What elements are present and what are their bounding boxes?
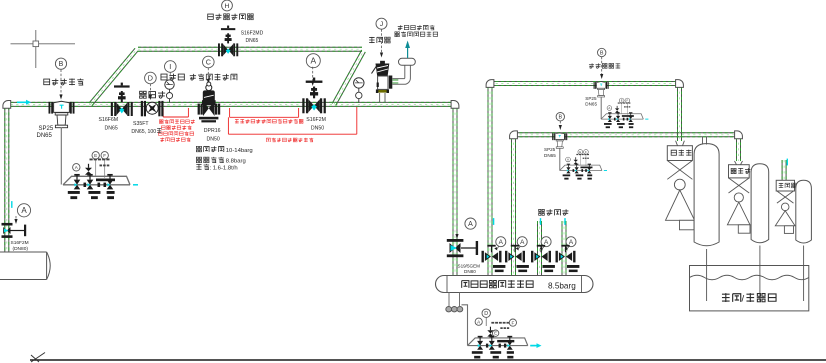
label stage 3 <box>779 183 797 188</box>
drain line separator 2 <box>600 97 602 119</box>
instrument bubble A (main globe valve) <box>306 54 320 68</box>
pressure gauge 2 <box>354 78 364 103</box>
header inlet valve 2 <box>505 245 529 272</box>
svg-text:A: A <box>468 221 473 228</box>
leader to valve 455 <box>456 229 458 235</box>
label stage 2 <box>731 168 751 174</box>
svg-text:H: H <box>225 3 230 10</box>
svg-text:: 8.8barg: : 8.8barg <box>223 159 246 165</box>
leader to strainer <box>149 84 151 96</box>
steam trap assembly 4 (bottom) <box>468 323 536 359</box>
svg-text:A: A <box>608 106 610 110</box>
steam trap assembly 1 (left) <box>63 152 138 200</box>
svg-text:S35FT: S35FT <box>133 121 149 127</box>
svg-text:SP25: SP25 <box>39 126 54 132</box>
header inlet valve 3 <box>531 245 555 272</box>
svg-text:S16F2M: S16F2M <box>306 117 326 123</box>
svg-text:: 1.6-1.8t/h: : 1.6-1.8t/h <box>210 166 238 172</box>
gate valve S16F6M <box>111 83 133 116</box>
flow arrow bottom trap <box>530 343 541 348</box>
leader to separator 1 <box>60 70 62 96</box>
svg-text:A: A <box>311 56 317 66</box>
svg-text:: 10-14barg: : 10-14barg <box>223 148 253 154</box>
svg-text:F: F <box>511 320 514 325</box>
svg-text:8.5barg: 8.5barg <box>548 281 576 290</box>
leader I to gauge <box>169 73 171 79</box>
wire bypass left diagonal <box>89 48 138 105</box>
svg-text:DN65: DN65 <box>246 38 259 44</box>
leader to safety valve <box>381 29 383 53</box>
valve on drop 455 <box>447 239 478 257</box>
svg-text:S16F2M: S16F2M <box>11 240 29 246</box>
pipe break tick stub 3 <box>540 218 542 225</box>
header inlet valve 1 <box>482 245 506 272</box>
instrument bubble F bottom trap <box>509 319 516 326</box>
leader header valve 4 <box>567 247 570 250</box>
instrument bubble A header 3 <box>541 237 551 247</box>
instrument bubble A bottom trap <box>475 318 482 325</box>
CAD crosshair marker <box>11 30 76 68</box>
svg-text:DN80: DN80 <box>464 269 476 274</box>
steam trap assembly 3 <box>560 150 607 180</box>
header drain nozzle <box>446 293 463 312</box>
spec text line 3 <box>196 164 209 170</box>
spec text line 2 <box>196 157 224 163</box>
vessel column 1 <box>694 144 719 246</box>
steam-water separator 2 <box>594 82 609 97</box>
pipe break tick stage3 stub <box>786 159 788 166</box>
pipe elbow top-left of main <box>3 101 11 109</box>
svg-text:DN65: DN65 <box>37 133 53 139</box>
label discharge pipe note <box>398 25 435 30</box>
label strainer <box>139 91 165 98</box>
hot well water level <box>690 275 809 280</box>
leader header valve 1 <box>496 247 499 250</box>
label safety valve <box>369 37 390 43</box>
wire drop pipe from main line <box>453 107 457 276</box>
instrument bubble I (gauge) <box>165 61 177 73</box>
pipe break tick left drop <box>11 201 13 208</box>
wire right branch pipe 2 horizontal <box>514 133 739 137</box>
svg-text:B: B <box>59 61 64 68</box>
svg-text:DN65: DN65 <box>105 125 118 131</box>
label config same as above <box>538 209 568 215</box>
leader left drop valve <box>15 216 17 220</box>
ejector stage 1 box <box>676 141 685 146</box>
svg-text:DN50: DN50 <box>207 136 220 142</box>
svg-text:DPR16: DPR16 <box>204 128 221 134</box>
wire drop pipe 2 to header <box>512 137 516 276</box>
label hot well <box>722 293 741 302</box>
ejector stage 2 box <box>735 161 743 165</box>
svg-text:(DN80): (DN80) <box>13 246 29 252</box>
vacuum ejector steam header drum <box>436 276 594 293</box>
instrument bubble D (strainer) <box>145 72 157 84</box>
pipe break tick stub 1 <box>493 218 495 225</box>
label stage 1 <box>671 150 691 156</box>
svg-text:DN65: DN65 <box>544 153 556 158</box>
safety valve <box>372 41 416 104</box>
label bellows globe valve <box>208 14 254 20</box>
svg-text:DN65, 100: DN65, 100 <box>131 129 156 135</box>
leader header valve 3 <box>542 247 545 250</box>
svg-text:A: A <box>21 206 27 215</box>
steam-water separator 3 <box>552 133 567 148</box>
svg-text:D: D <box>484 311 488 317</box>
svg-text:I: I <box>169 62 171 71</box>
svg-text:DN50: DN50 <box>311 126 324 132</box>
label pressure gauge <box>161 74 184 81</box>
vessel column 2 <box>751 164 769 243</box>
strainer S35FT <box>141 101 164 116</box>
wire drop pipe 1 to header <box>488 86 492 276</box>
leader to separator 2 <box>601 57 603 75</box>
ejector stage 3 body <box>775 191 795 233</box>
leader to separator 3 <box>559 121 561 126</box>
left condensate drum <box>0 252 50 280</box>
svg-text:A: A <box>520 239 525 246</box>
instrument bubble H <box>222 0 233 11</box>
pilot-operated pressure reducing valve DPR16 <box>198 82 221 122</box>
svg-text:J: J <box>380 21 383 28</box>
instrument bubble E bottom trap <box>492 330 498 336</box>
red dimension bracket 2 <box>230 108 299 117</box>
pipe break tick stub 4 <box>564 218 566 225</box>
leader to globe valve <box>312 67 314 82</box>
svg-text:E: E <box>621 99 623 103</box>
instrument bubble B3 <box>556 113 564 121</box>
pipe elbow branch1 right <box>676 80 684 88</box>
wire stub pipe 3 to header <box>538 221 542 276</box>
leader header valve 2 <box>518 247 521 250</box>
svg-text:A: A <box>567 158 569 162</box>
instrument bubble A header 4 <box>566 237 576 247</box>
svg-text:S19/5GEM: S19/5GEM <box>458 264 481 269</box>
svg-text:/: / <box>742 294 745 305</box>
label header drum <box>462 280 533 288</box>
svg-text:F: F <box>626 99 628 103</box>
wire stub pipe to ejector stage 3 <box>782 160 786 180</box>
instrument bubble D bottom trap <box>482 309 490 317</box>
steam trap assembly 2 <box>601 98 648 128</box>
valve on left drop pipe <box>2 223 27 238</box>
drain line from separator 1 <box>60 128 62 185</box>
globe valve S16F2M <box>302 78 326 114</box>
instrument bubble A left drop <box>17 204 30 217</box>
flow arrow on main pipe <box>17 100 31 105</box>
instrument bubble J <box>376 18 387 29</box>
wire right branch pipe 1 horizontal <box>490 82 680 86</box>
pipe elbow branch1 left <box>486 80 494 88</box>
svg-text:F: F <box>103 153 106 158</box>
red note text on bracket 2 <box>235 119 303 123</box>
instrument bubble A drop 455 <box>465 218 476 229</box>
svg-text:E: E <box>94 153 97 158</box>
wire left drop pipe <box>5 107 9 253</box>
pressure gauge 1 <box>165 80 174 103</box>
svg-text:DN65: DN65 <box>585 102 597 107</box>
pipe elbow branch2 right <box>735 131 743 139</box>
pipe elbow main to drop <box>451 101 459 109</box>
frame break mark <box>31 353 45 363</box>
svg-text:F: F <box>585 150 587 154</box>
instrument bubble B2 <box>598 48 606 56</box>
header inlet valve 4 <box>556 245 580 272</box>
spec text line 1 <box>196 146 224 152</box>
instrument bubble A header 1 <box>496 237 506 247</box>
svg-text:B: B <box>600 50 604 56</box>
red dimension bracket 3 <box>228 107 356 134</box>
hot well tank <box>690 266 809 311</box>
svg-text:SP25: SP25 <box>585 96 597 101</box>
svg-text:A: A <box>499 239 504 246</box>
drain line separator 3 <box>559 148 561 170</box>
wire bypass right diagonal <box>332 50 365 105</box>
svg-text:B: B <box>558 115 562 121</box>
steam-water separator 1 <box>49 101 75 127</box>
svg-text:S16F2MD: S16F2MD <box>241 30 264 36</box>
svg-text:E: E <box>494 331 497 336</box>
instrument bubble B1 <box>55 58 66 69</box>
vessel drain lines <box>706 249 708 301</box>
drawing frame bottom line <box>30 359 826 361</box>
ejector stage 1 body <box>666 161 695 230</box>
wire main steam pipe horizontal <box>5 102 456 106</box>
label pilot pressure reducing valve <box>190 74 237 81</box>
wire drop pipe to ejector stage 1 <box>678 86 682 141</box>
label steam-water separator 2 <box>589 63 620 68</box>
svg-text:S16F6M: S16F6M <box>99 117 119 123</box>
wire drain to bottom trap <box>462 305 468 346</box>
wire drop pipe to ejector stage 2 <box>737 137 741 161</box>
instrument bubble C (PRV) <box>203 56 215 68</box>
red dimension bracket 1 <box>163 108 188 117</box>
svg-text:SP25: SP25 <box>544 147 556 152</box>
pipe elbow branch2 left <box>510 131 518 139</box>
ejector stage 3 box <box>776 180 794 191</box>
wire stub pipe 4 to header <box>562 221 566 276</box>
red note text block 1 <box>159 119 195 123</box>
vessel 1 top nozzle <box>703 137 707 145</box>
svg-text:D: D <box>148 74 153 83</box>
ejector stage 2 body <box>727 178 750 233</box>
instrument bubble A header 2 <box>517 237 527 247</box>
red note text on bracket 3 <box>266 138 313 142</box>
bellows globe valve S16F2MD <box>218 26 238 57</box>
svg-text:E: E <box>579 150 581 154</box>
vessel column 3 <box>796 180 812 243</box>
wire bypass top pipe horizontal <box>138 47 362 51</box>
label steam-water separator 1 <box>44 78 84 85</box>
svg-text:C: C <box>206 58 211 67</box>
leader to PRV <box>207 68 209 80</box>
